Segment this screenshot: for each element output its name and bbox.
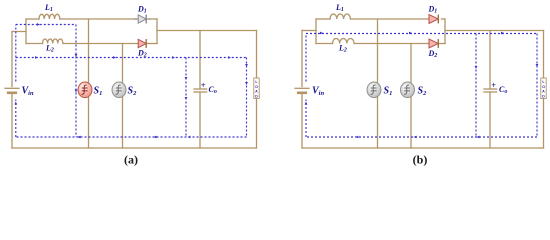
svg-text:+: +: [491, 80, 496, 90]
svg-text:S2: S2: [128, 86, 138, 97]
svg-text:O: O: [255, 85, 258, 89]
svg-text:O: O: [542, 85, 545, 89]
svg-text:A: A: [542, 90, 545, 94]
svg-text:Vin: Vin: [22, 86, 34, 97]
svg-text:S1: S1: [384, 86, 393, 97]
svg-text:S2: S2: [418, 86, 428, 97]
svg-text:Co: Co: [209, 85, 217, 95]
svg-text:D1: D1: [428, 5, 438, 15]
svg-text:L1: L1: [335, 3, 344, 13]
svg-text:Vin: Vin: [312, 86, 324, 97]
svg-text:D: D: [542, 94, 545, 98]
svg-text:(a): (a): [124, 153, 138, 167]
svg-text:D: D: [255, 94, 258, 98]
svg-text:L1: L1: [44, 3, 53, 13]
svg-text:A: A: [255, 90, 258, 94]
svg-text:L2: L2: [338, 44, 347, 54]
svg-text:D1: D1: [137, 5, 147, 15]
svg-text:+: +: [201, 80, 206, 90]
svg-text:D2: D2: [137, 49, 147, 59]
svg-text:Co: Co: [499, 85, 507, 95]
svg-text:L2: L2: [45, 44, 54, 54]
svg-text:S1: S1: [94, 86, 103, 97]
svg-text:(b): (b): [413, 153, 428, 167]
svg-text:D2: D2: [428, 49, 438, 59]
